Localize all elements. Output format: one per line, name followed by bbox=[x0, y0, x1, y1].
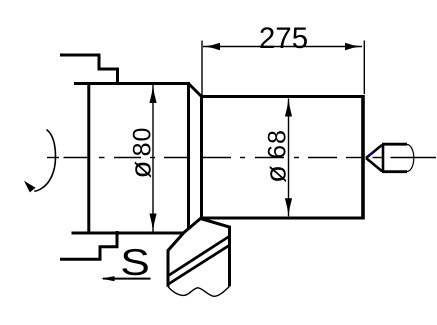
workpiece Ø68 cylinder outline bbox=[202, 95, 364, 220]
dimension 275: arrowhead right bbox=[345, 43, 362, 50]
dimension Ø68: dimension line bbox=[288, 99, 290, 217]
dimension 275: arrowhead left bbox=[203, 43, 220, 50]
dimension Ø68: arrowhead up bbox=[285, 99, 292, 117]
svg-text:ø: ø bbox=[261, 165, 293, 183]
feed direction arrow head bbox=[101, 276, 115, 281]
cutting tool outline (thick edges) bbox=[168, 219, 230, 287]
rotation arrow head bbox=[24, 181, 36, 193]
svg-text:ø: ø bbox=[126, 160, 158, 178]
svg-text:S: S bbox=[120, 242, 150, 284]
workpiece Ø80 cylinder outline bbox=[72, 82, 190, 235]
tailstock center cone bbox=[366, 145, 382, 171]
dimension Ø80: arrowhead down bbox=[149, 214, 156, 232]
svg-text:80: 80 bbox=[129, 127, 157, 157]
centerline (axis) dash-dot segments bbox=[47, 157, 436, 159]
dimension Ø80: arrowhead up bbox=[149, 85, 156, 103]
tailstock center body bbox=[382, 144, 385, 172]
feed direction arrow line bbox=[103, 278, 151, 280]
chuck jaw bottom bbox=[60, 231, 117, 259]
dimension Ø68: arrowhead down bbox=[285, 198, 292, 216]
dimension Ø80: dimension line bbox=[152, 85, 154, 232]
svg-text:275: 275 bbox=[259, 22, 308, 55]
dimension 275: extension line left bbox=[201, 41, 203, 96]
cutting tool body (white fill hides lines beneath) bbox=[168, 219, 230, 297]
chuck jaw top bbox=[60, 55, 118, 85]
cutting tool insert line upper bbox=[169, 237, 230, 276]
dimension 275: extension line right bbox=[363, 41, 365, 95]
cutting tool insert line lower bbox=[169, 246, 230, 285]
rotation arrow arc bbox=[34, 130, 55, 192]
centerline dash inside tailstock cone bbox=[373, 157, 384, 159]
svg-text:68: 68 bbox=[264, 129, 292, 159]
cutting tool break line (wavy bottom) bbox=[168, 286, 230, 296]
dimension 275: dimension line bbox=[203, 46, 362, 48]
tailstock center blue segment bbox=[370, 152, 374, 155]
tailstock center rounded end bbox=[407, 145, 414, 172]
chamfer between Ø80 and Ø68 bbox=[189, 84, 202, 97]
